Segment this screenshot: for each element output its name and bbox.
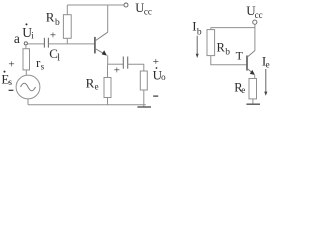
label Rb — [46, 9, 60, 28]
label Ucc (right) — [246, 3, 262, 20]
wire top rail right — [211, 27, 255, 29]
wire bottom rail — [28, 104, 146, 106]
svg-text:cc: cc — [144, 6, 152, 16]
wire Re bottom stub — [107, 98, 109, 105]
svg-text:R: R — [86, 76, 95, 91]
capacitor C1 — [44, 38, 48, 48]
svg-text:T: T — [236, 48, 244, 62]
label Re — [86, 76, 99, 92]
ground right — [246, 103, 260, 105]
wire rs to source — [25, 70, 27, 75]
terminal Ucc right (open circle) — [253, 20, 257, 24]
label Uo — [153, 67, 167, 82]
ground — [137, 106, 151, 108]
wire node a to rs — [25, 45, 27, 49]
label - of Uo — [153, 95, 158, 97]
svg-text:s: s — [41, 62, 45, 72]
svg-text:l: l — [57, 53, 60, 64]
transistor V1 base bar — [94, 37, 96, 54]
capacitor C2 — [123, 57, 127, 69]
arrow Ib — [196, 36, 199, 58]
svg-text:+: + — [153, 56, 159, 68]
label Rb right — [217, 40, 231, 57]
arrow Ie — [264, 69, 267, 96]
wire source to ground rail — [27, 99, 29, 105]
label Es — [1, 71, 12, 87]
resistor Rb — [63, 15, 71, 39]
transistor V1 emitter with arrow — [95, 49, 108, 65]
wire Re right bottom stub — [252, 99, 254, 104]
svg-text:b: b — [225, 47, 230, 57]
resistor RL (load) — [140, 71, 147, 90]
label C1 — [49, 46, 60, 64]
svg-text:o: o — [161, 72, 166, 82]
transistor T emitter with arrow — [247, 68, 255, 78]
wire emitter node to C2 — [108, 63, 124, 65]
wire C2 to load — [128, 64, 144, 71]
label Ui — [22, 23, 34, 40]
label Re right — [234, 80, 245, 95]
svg-text:s: s — [9, 77, 13, 87]
resistor rs — [23, 49, 30, 70]
svg-text:R: R — [217, 40, 226, 54]
svg-text:e: e — [241, 85, 245, 95]
wire Rb right top stub — [210, 28, 212, 30]
resistor Rb right — [207, 30, 215, 56]
wire load bottom stub — [143, 90, 145, 107]
resistor Re — [104, 78, 111, 98]
svg-text:+: + — [8, 59, 14, 71]
wire C1 to base — [48, 43, 94, 45]
label Ucc — [135, 1, 152, 16]
wire node a to C1 — [27, 43, 44, 45]
wire top rail — [67, 4, 124, 6]
source Es (AC) — [16, 75, 40, 99]
transistor T collector — [247, 51, 255, 58]
terminal Ucc (open circle) — [124, 3, 128, 7]
label Ie — [262, 53, 270, 69]
label Ib — [192, 19, 202, 38]
svg-text:cc: cc — [255, 10, 263, 20]
node a (open circle) — [24, 42, 27, 45]
svg-text:+: + — [50, 30, 56, 42]
svg-text:e: e — [266, 60, 270, 70]
svg-text:R: R — [46, 9, 55, 24]
svg-text:a: a — [14, 31, 20, 46]
label - of Es — [9, 89, 14, 91]
svg-text:U: U — [135, 1, 144, 15]
transistor T base bar — [246, 56, 248, 71]
label rs — [36, 55, 45, 72]
wire terminal to rail — [254, 24, 256, 50]
wire Rb bottom stub — [66, 38, 68, 44]
svg-text:+: + — [114, 65, 120, 77]
svg-text:b: b — [55, 18, 60, 28]
transistor V1 collector — [95, 5, 108, 41]
wire Rb top stub — [66, 5, 68, 15]
wire Rb bottom to base — [211, 56, 247, 65]
svg-text:e: e — [95, 82, 99, 92]
resistor Re right — [249, 79, 257, 99]
wire Re top stub — [107, 64, 109, 77]
